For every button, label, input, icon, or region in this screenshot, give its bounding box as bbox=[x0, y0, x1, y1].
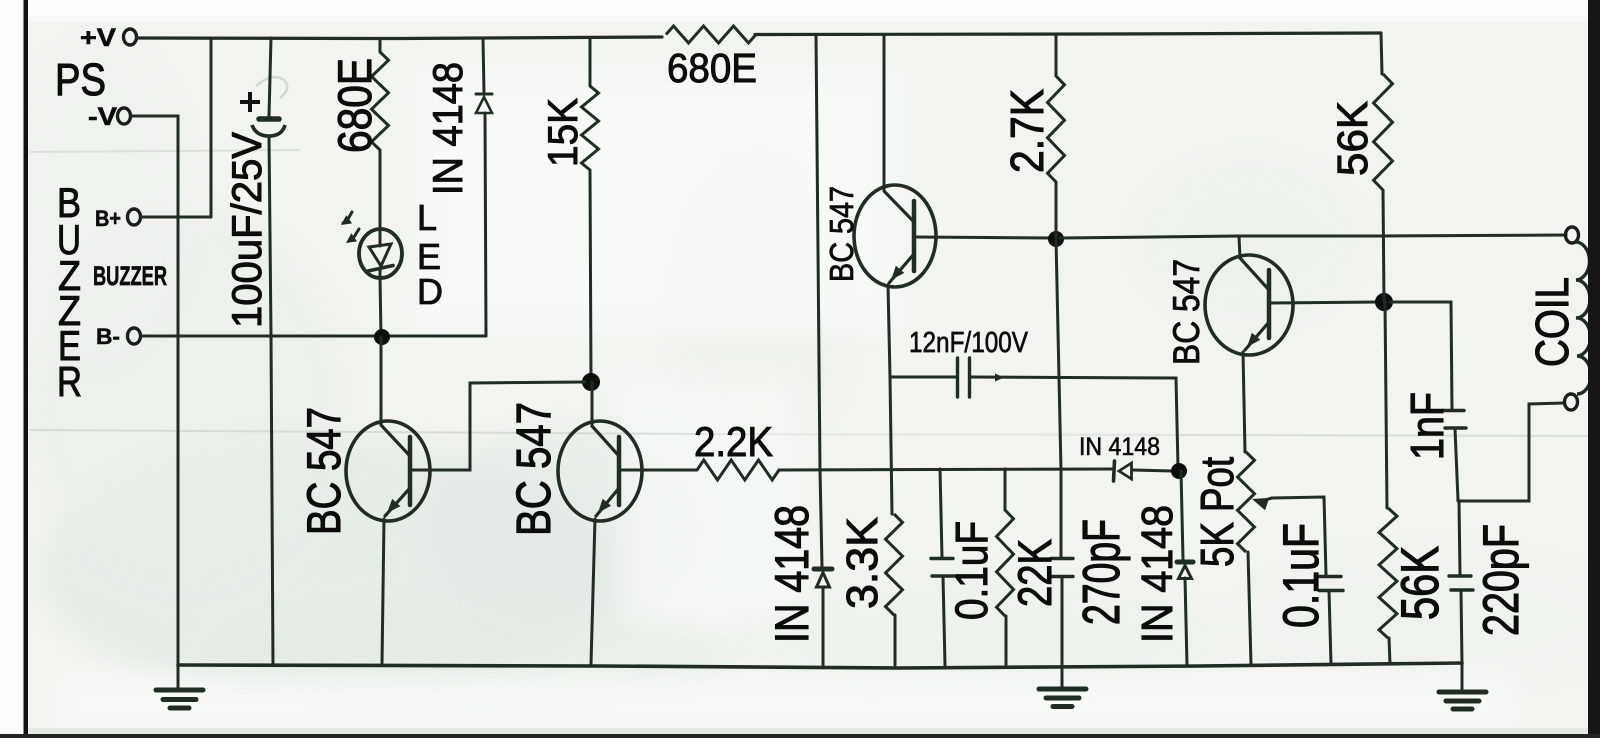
svg-text:BUZZER: BUZZER bbox=[93, 261, 167, 291]
wire 2.7K to node C bbox=[1055, 182, 1058, 239]
label 220pF bbox=[1473, 524, 1529, 636]
label COIL bbox=[1526, 277, 1578, 367]
resistor 22K bbox=[997, 510, 1014, 616]
scan edge left bbox=[0, 0, 28, 738]
label 5K Pot bbox=[1191, 457, 1243, 567]
svg-text:22K: 22K bbox=[1008, 539, 1061, 607]
wire 100uF top bbox=[269, 38, 271, 116]
svg-text:56K: 56K bbox=[1329, 101, 1377, 176]
svg-text:BC 547: BC 547 bbox=[508, 402, 561, 536]
svg-text:270pF: 270pF bbox=[1073, 519, 1131, 625]
capacitor 220pF bbox=[1449, 576, 1473, 590]
svg-text:12nF/100V: 12nF/100V bbox=[909, 327, 1029, 359]
wire D6 to ground rail bbox=[1185, 578, 1187, 665]
LED arrows bbox=[341, 212, 359, 243]
wire 0.1uF C3 to ground rail bbox=[943, 576, 945, 665]
terminal +V bbox=[80, 24, 137, 52]
wire 3.3K to ground rail bbox=[894, 615, 897, 665]
svg-text:+V: +V bbox=[80, 24, 116, 52]
wire node E down to 56K lower bbox=[1385, 302, 1387, 508]
wire 3.3K top is Q3 emitter line bbox=[0, 0, 1, 1]
pot wiper arrow bbox=[1252, 498, 1272, 510]
svg-text:IN 4148: IN 4148 bbox=[1133, 505, 1182, 643]
label 56K (upper) bbox=[1329, 101, 1377, 176]
svg-text:BC 547: BC 547 bbox=[823, 186, 860, 282]
wire +V top rail bbox=[137, 33, 1381, 39]
wire 270pF to ground bbox=[1061, 577, 1064, 668]
label PS bbox=[55, 54, 106, 105]
wire Q3 base to coil rail bbox=[916, 237, 1052, 238]
node C (Q3 base / 2.7K) bbox=[1048, 231, 1064, 247]
capacitor 0.1uF C7 bbox=[1317, 577, 1343, 591]
scan edge bottom bbox=[0, 728, 1600, 738]
diode IN 4148 D5 (horizontal) bbox=[1114, 461, 1173, 481]
potentiometer 5K Pot bbox=[1238, 452, 1255, 552]
label IN 4148 (D6) bbox=[1133, 505, 1182, 643]
label BC 547 (Q4) bbox=[1166, 259, 1207, 365]
label 3.3K bbox=[838, 517, 887, 609]
wire LED to node A bbox=[380, 276, 381, 337]
wire top rail drop (IN4148 D4 branch) bbox=[816, 35, 822, 566]
wire Q1 base bbox=[412, 382, 585, 470]
label 100uF/25V bbox=[223, 132, 270, 328]
wire 12nF right to node D bbox=[970, 377, 1178, 468]
label IN 4148 (D5) bbox=[1079, 433, 1160, 461]
wire ground rail bbox=[178, 663, 1462, 668]
svg-text:56K: 56K bbox=[1391, 546, 1450, 620]
wire Q4 emitter to pot bbox=[1243, 352, 1245, 452]
label 270pF bbox=[1073, 519, 1131, 625]
svg-text:680E: 680E bbox=[667, 45, 757, 91]
label BC 547 (Q2) bbox=[508, 402, 561, 536]
resistor 2.7K bbox=[1048, 76, 1065, 182]
label 2.7K bbox=[1001, 89, 1053, 173]
node D (12nF / diodes) bbox=[1171, 463, 1187, 479]
wire 12nF left bbox=[890, 376, 955, 379]
resistor 680E (vertical) bbox=[372, 52, 389, 150]
svg-text:220pF: 220pF bbox=[1473, 524, 1529, 636]
diode IN 4148 D2 bbox=[476, 94, 492, 113]
transistor Q3 BC 547 bbox=[854, 185, 936, 287]
capacitor 270pF bbox=[1051, 559, 1073, 577]
svg-text:COIL: COIL bbox=[1526, 277, 1578, 367]
svg-text:L: L bbox=[417, 197, 437, 238]
svg-text:IN 4148: IN 4148 bbox=[1079, 433, 1160, 461]
label 0.1uF (C3) bbox=[946, 521, 997, 620]
wire 680E to LED bbox=[379, 150, 382, 234]
capacitor 1nF bbox=[1443, 411, 1466, 429]
wire node C to Q4 collector tap bbox=[1060, 235, 1566, 238]
svg-text:D: D bbox=[417, 271, 443, 312]
wire 680E top stub bbox=[379, 39, 382, 53]
svg-text:B-: B- bbox=[96, 324, 120, 349]
node A (LED / B- / Q1 collector) bbox=[374, 329, 390, 345]
wire 2.7K top stub bbox=[1055, 36, 1058, 76]
svg-text:5K Pot: 5K Pot bbox=[1191, 457, 1243, 567]
wire Q1 emitter bbox=[382, 519, 384, 664]
label 56K (lower) bbox=[1391, 546, 1450, 620]
label BC 547 (Q3) bbox=[823, 186, 860, 282]
capacitor 12nF/100V bbox=[958, 358, 970, 397]
transistor Q1 BC 547 bbox=[346, 421, 430, 521]
svg-text:2.7K: 2.7K bbox=[1001, 89, 1053, 173]
resistor 3.3K bbox=[886, 514, 903, 615]
svg-text:15K: 15K bbox=[539, 98, 586, 167]
label 0.1uF (C7) bbox=[1273, 523, 1329, 628]
capacitor 0.1uF C3 bbox=[931, 559, 954, 577]
wire Q3 collector from top rail bbox=[883, 35, 886, 189]
terminal B+ bbox=[95, 206, 141, 231]
svg-text:100uF/25V: 100uF/25V bbox=[223, 132, 270, 328]
wire IN4148 D2 bottom bbox=[485, 113, 486, 336]
wire node B to Q2 collector bbox=[591, 382, 594, 425]
node B (Q1 base / Q2 collector) bbox=[582, 373, 600, 391]
svg-text:B+: B+ bbox=[95, 206, 121, 231]
label LED bbox=[417, 197, 443, 312]
label 1nF bbox=[1401, 392, 1453, 460]
diode IN 4148 D4 bbox=[814, 569, 832, 587]
label BUZZER small bbox=[93, 261, 167, 291]
wire 56K lower to ground rail bbox=[1389, 638, 1390, 664]
label BC 547 (Q1) bbox=[297, 407, 350, 535]
wire Q4 collector tap bbox=[1239, 237, 1240, 257]
wire node C down to 270pF bbox=[1056, 239, 1061, 557]
resistor 2.2K bbox=[697, 460, 779, 480]
node E (Q4 base / 56K) bbox=[1375, 293, 1393, 311]
wire 56K to node E bbox=[1383, 190, 1384, 302]
transistor Q4 BC 547 bbox=[1205, 255, 1293, 355]
LED D1 bbox=[359, 229, 402, 278]
wire +V drop to B+ bbox=[141, 38, 211, 217]
terminal B- bbox=[96, 324, 141, 349]
wire -V to ground rail bbox=[131, 116, 178, 664]
svg-text:1nF: 1nF bbox=[1401, 392, 1453, 460]
label + (100uF polarity) bbox=[240, 92, 260, 112]
wire junction F to coil bottom bbox=[1458, 403, 1564, 501]
label IN 4148 (D4) bbox=[765, 505, 818, 643]
svg-text:0.1uF: 0.1uF bbox=[946, 521, 997, 620]
resistor 56K (upper) bbox=[1374, 74, 1393, 190]
svg-text:R: R bbox=[57, 358, 82, 405]
stray arrow mark on 12nF wire bbox=[995, 374, 1004, 382]
wire B- to LED node bbox=[141, 335, 486, 338]
wire Q3 emitter bbox=[888, 285, 892, 514]
svg-text:680E: 680E bbox=[328, 58, 381, 153]
wire IN4148 D2 top bbox=[483, 39, 484, 92]
wire 1nF to junction F bbox=[1455, 429, 1458, 501]
wire node A to Q1 collector bbox=[380, 337, 383, 424]
coil terminal top bbox=[1566, 227, 1579, 243]
svg-text:2.2K: 2.2K bbox=[694, 418, 773, 465]
terminal -V bbox=[88, 103, 131, 131]
label 2.2K bbox=[694, 418, 773, 465]
label BUZZER (vertical) bbox=[57, 179, 82, 405]
svg-text:BC 547: BC 547 bbox=[1166, 259, 1207, 365]
label 15K bbox=[539, 98, 586, 167]
wire D4 to ground rail bbox=[822, 587, 825, 665]
ground (center) bbox=[1039, 668, 1086, 707]
label 22K bbox=[1008, 539, 1061, 607]
wire 2.2K to diode D5 bbox=[779, 469, 1112, 470]
label 680E (vertical resistor) bbox=[328, 58, 381, 153]
resistor 680E (horizontal, top) bbox=[666, 26, 756, 43]
capacitor 100uF/25V plates bbox=[252, 119, 285, 136]
svg-text:IN 4148: IN 4148 bbox=[765, 505, 818, 643]
ground (left) bbox=[156, 665, 203, 708]
wire C7 to ground rail bbox=[1329, 591, 1331, 664]
svg-text:0.1uF: 0.1uF bbox=[1273, 523, 1329, 628]
label 680E (top resistor) bbox=[667, 45, 757, 91]
ground (right) bbox=[1439, 663, 1486, 709]
wire wiper to 0.1uF C7 bbox=[1272, 497, 1326, 575]
label IN 4148 (D2) bbox=[424, 62, 471, 195]
wire Q2 base to 2.2K bbox=[621, 469, 697, 472]
diode IN 4148 D6 bbox=[1177, 562, 1193, 579]
paper crease lines bbox=[30, 77, 1588, 436]
wire 220pF to ground rail bbox=[1461, 591, 1462, 664]
inductor COIL bbox=[1575, 242, 1591, 394]
wire node D to diode D6 bbox=[1181, 471, 1183, 559]
resistor 56K (lower) bbox=[1379, 508, 1397, 638]
wire Q2 emitter bbox=[591, 519, 595, 664]
wire 22K to ground rail bbox=[1005, 616, 1008, 665]
label 12nF/100V bbox=[909, 327, 1029, 359]
svg-text:IN 4148: IN 4148 bbox=[424, 62, 471, 195]
svg-text:PS: PS bbox=[55, 54, 106, 105]
wire 100uF bottom to ground rail bbox=[269, 136, 273, 664]
wire 0.1uF C3 top bbox=[940, 469, 942, 557]
scan edge right bbox=[1588, 0, 1600, 738]
wire 15K to node B bbox=[590, 170, 591, 382]
wire 22K top bbox=[1004, 469, 1007, 510]
wire top rail corner to 56K bbox=[1381, 33, 1382, 74]
svg-text:3.3K: 3.3K bbox=[838, 517, 887, 609]
wire 15K top stub bbox=[589, 40, 592, 87]
wire node E to 1nF bbox=[1390, 302, 1452, 409]
wire junction F down to 220pF bbox=[1459, 501, 1460, 575]
svg-text:BC 547: BC 547 bbox=[297, 407, 350, 535]
transistor Q2 BC 547 bbox=[558, 421, 642, 521]
wire pot to ground rail bbox=[1248, 552, 1251, 664]
wire Q4 base to node E bbox=[1271, 302, 1378, 303]
svg-text:-V: -V bbox=[88, 103, 117, 131]
coil terminal bottom bbox=[1565, 394, 1578, 410]
resistor 15K bbox=[582, 86, 599, 170]
